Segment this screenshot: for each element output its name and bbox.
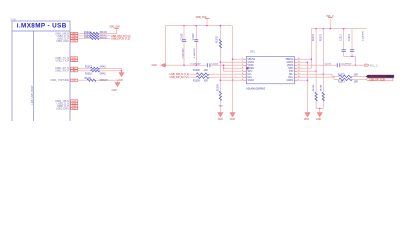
svg-text:VDD_5V0: VDD_5V0 <box>109 26 120 29</box>
junction join <box>319 108 320 109</box>
wire GND1 row <box>220 61 243 63</box>
junction pin row <box>315 71 316 72</box>
svg-text:SPD: SPD <box>288 68 293 70</box>
junction gnd2 <box>307 62 308 63</box>
svg-text:R1005: R1005 <box>217 36 219 43</box>
svg-text:7: 7 <box>242 76 243 78</box>
wire VBUS row <box>78 32 90 34</box>
junction rail r1075 <box>323 28 324 29</box>
wire bus left drop <box>164 26 166 66</box>
svg-text:GND: GND <box>218 118 224 121</box>
resistor R1009 <box>193 76 209 83</box>
svg-text:USB1_RX_P: USB1_RX_P <box>55 70 69 73</box>
wire RX_P row <box>78 70 91 72</box>
svg-text:R1009: R1009 <box>193 80 200 82</box>
svg-text:VDD1: VDD1 <box>248 65 255 67</box>
junction RX <box>121 70 122 71</box>
resistor R1075 vertical <box>319 29 324 109</box>
wire DD- row <box>297 74 339 76</box>
svg-text:PIN: PIN <box>289 71 293 73</box>
svg-text:i.MX_USB_PORT: i.MX_USB_PORT <box>31 85 34 104</box>
pin USB1_D_P <box>57 37 78 40</box>
svg-text:5: 5 <box>242 70 243 72</box>
resistor R1005 vertical <box>217 26 222 113</box>
pin stubs right U71 <box>294 59 297 80</box>
svg-text:USB1_DMU: USB1_DMU <box>56 40 69 43</box>
wire VBUS to VDD_5V0 <box>99 29 117 34</box>
pin stubs left U71 <box>244 59 247 80</box>
global label 5VL_2 <box>365 63 378 67</box>
block i.MX8MP outer box <box>12 21 70 122</box>
wire cap bottoms <box>344 56 356 65</box>
wire rail left drop to VBUS2 <box>297 29 311 60</box>
junction gnd1 <box>220 62 221 63</box>
svg-text:C1213: C1213 <box>340 34 342 41</box>
svg-text:GND: GND <box>304 118 310 121</box>
junction bus c1008 <box>183 25 184 26</box>
capacitor C1214 <box>349 29 354 57</box>
svg-text:DD-: DD- <box>289 74 293 76</box>
wire GND1b row <box>220 79 243 81</box>
wire bus right drop to VBUS1 <box>232 26 234 113</box>
ground TXRTUNE <box>112 83 121 93</box>
wire PDEN row <box>224 67 244 69</box>
ground R1005 <box>218 113 224 122</box>
wire join to gnd <box>319 109 321 113</box>
svg-text:VDD2: VDD2 <box>287 65 294 67</box>
capacitor C1008 <box>181 26 186 66</box>
wire gnd2 vertical <box>307 62 309 112</box>
svg-text:1: 1 <box>242 58 243 60</box>
svg-text:USB_DP_N (7,2): USB_DP_N (7,2) <box>170 76 189 79</box>
svg-text:C1002: C1002 <box>193 33 195 40</box>
svg-text:5VL_2: 5VL_2 <box>370 63 378 67</box>
svg-text:R1073: R1073 <box>338 82 345 84</box>
svg-text:4K7AC: 4K7AC <box>312 84 315 91</box>
ground left arrow <box>152 63 166 67</box>
svg-text:A9: A9 <box>73 70 75 73</box>
net label USB_DM_CON <box>366 75 394 79</box>
resistor R1024 <box>84 32 107 34</box>
svg-text:8: 8 <box>242 79 243 81</box>
capacitor C1002 <box>193 26 198 66</box>
svg-text:6: 6 <box>242 73 243 75</box>
svg-text:A10: A10 <box>72 59 75 62</box>
svg-text:GND: GND <box>316 118 322 121</box>
wire VDD2 row <box>297 64 337 66</box>
resistor R1017 <box>85 65 106 69</box>
wire TXRTUNE row <box>78 79 87 81</box>
resistor R1021 <box>85 78 109 82</box>
svg-text:DD+: DD+ <box>288 77 293 79</box>
wire D_N row <box>78 35 90 37</box>
svg-text:F12: F12 <box>72 80 75 82</box>
svg-text:VBUS1: VBUS1 <box>248 59 256 61</box>
svg-text:0.1uF/16V: 0.1uF/16V <box>362 30 364 41</box>
svg-text:R1075: R1075 <box>320 34 322 41</box>
wire D_P stub <box>99 37 111 39</box>
resistor R1025 <box>84 35 107 38</box>
junction rail c1213 <box>343 28 344 29</box>
wire UD+ row <box>190 76 197 78</box>
svg-text:E12: E12 <box>72 108 75 110</box>
junction bus r1005 <box>220 25 221 26</box>
svg-text:R1018: R1018 <box>85 74 92 76</box>
pin USB1_RX_P <box>55 70 78 73</box>
wire D_P row <box>78 37 90 39</box>
wire PIN row <box>297 70 316 72</box>
pin USB1_D_N <box>57 35 78 38</box>
wire TXRTUNE to gnd <box>97 80 118 82</box>
svg-text:B11: B11 <box>72 41 75 43</box>
svg-text:2: 2 <box>242 61 243 63</box>
pin 4 PDEN square <box>247 67 249 69</box>
svg-text:0RAC: 0RAC <box>100 73 106 76</box>
svg-text:USB2_DMU: USB2_DMU <box>56 107 69 110</box>
svg-text:GND: GND <box>112 89 118 92</box>
svg-text:VBUS2: VBUS2 <box>285 59 293 61</box>
pin numbers left U71 <box>242 58 243 81</box>
svg-text:GND2: GND2 <box>287 62 294 64</box>
svg-text:GND: GND <box>230 118 236 121</box>
wire VDD1 row with cap <box>165 64 207 66</box>
svg-text:10R: 10R <box>204 70 209 72</box>
svg-text:10R: 10R <box>204 80 209 82</box>
pin USB2_D_N <box>57 102 78 105</box>
svg-text:GND: GND <box>118 79 124 82</box>
wire 3v3 bus <box>165 25 231 27</box>
svg-text:10R: 10R <box>354 82 359 84</box>
wire GND2b row <box>297 79 308 81</box>
junction spu <box>223 65 224 66</box>
power 5VL_2 <box>327 15 335 29</box>
svg-text:C1003: C1003 <box>211 64 218 66</box>
wire GND2 row <box>297 61 308 63</box>
junction dd- <box>323 74 324 75</box>
svg-text:USB_DP_CON: USB_DP_CON <box>369 79 385 82</box>
wire DD- to label <box>352 75 366 77</box>
svg-text:R1008: R1008 <box>193 70 200 72</box>
resistor R1026 <box>84 37 107 40</box>
wire RX_N to gnd <box>100 68 122 72</box>
capacitor C1003 <box>191 63 219 67</box>
svg-text:C1008: C1008 <box>181 33 183 40</box>
junction cap2 <box>351 56 352 57</box>
wire DD+ row <box>297 77 339 79</box>
wire vbus2 to spd <box>297 59 311 68</box>
svg-text:SPU: SPU <box>248 71 253 73</box>
wire join R1074 R1075 <box>316 108 323 110</box>
pin USB1_TX_P <box>55 59 77 62</box>
pin names right U71 <box>285 59 293 82</box>
pin USB1_TXRTUNE <box>50 79 78 82</box>
junction bus c1002 <box>196 25 197 26</box>
pin USB1_RX_N <box>55 67 78 70</box>
pin USB1_DMU <box>56 40 78 43</box>
svg-text:R1006: R1006 <box>218 84 220 91</box>
svg-text:C1071: C1071 <box>325 64 332 66</box>
svg-text:PDEN: PDEN <box>248 68 255 70</box>
svg-text:51K: 51K <box>219 105 223 107</box>
svg-text:0.1uF/16V: 0.1uF/16V <box>194 48 196 59</box>
wire 5v rail <box>311 28 366 30</box>
junction gnd2b <box>307 80 308 81</box>
resistor R1008 <box>193 70 209 76</box>
svg-text:3: 3 <box>242 64 243 66</box>
wire SPU row <box>224 65 244 71</box>
wire RX_P to junction <box>100 70 122 72</box>
power VDD_3V3 <box>196 16 210 26</box>
svg-text:4K7AC: 4K7AC <box>319 84 322 91</box>
ground gnd2 <box>304 113 311 122</box>
svg-text:GND1: GND1 <box>248 80 255 82</box>
pin USB2_DMU <box>56 107 78 110</box>
svg-text:USB_DP_N (7,2): USB_DP_N (7,2) <box>111 37 130 40</box>
svg-text:UD+: UD+ <box>248 77 253 79</box>
svg-text:GND: GND <box>152 64 158 67</box>
wire UD- row <box>190 73 197 75</box>
junction vbus2 <box>311 59 312 60</box>
svg-text:USB1_TXRTUNE: USB1_TXRTUNE <box>50 79 69 82</box>
svg-text:GND1: GND1 <box>248 62 255 64</box>
resistor R1018 <box>85 70 106 76</box>
svg-text:4: 4 <box>242 67 243 69</box>
pin USB1_VBUS <box>55 32 78 35</box>
junction vdd1 c1002 <box>196 65 197 66</box>
pin USB1_TX_N <box>55 57 77 60</box>
pin USB2_VBUS <box>55 100 78 103</box>
pin names left U71 <box>248 59 256 82</box>
ground right pair <box>316 113 323 122</box>
junction rail r1074 <box>315 28 316 29</box>
resistor R1006 vertical on gnd chain <box>218 84 224 108</box>
wire RX_N row <box>78 67 91 69</box>
net label USB_DP_CON <box>366 78 393 82</box>
resistor R1072 <box>338 74 358 77</box>
wire DD+ to label <box>352 78 366 80</box>
pin USB2_D_P <box>57 105 78 108</box>
svg-text:USB1_TX_P: USB1_TX_P <box>55 59 69 62</box>
wire D_N stub <box>99 35 111 37</box>
resistor R1073 <box>338 78 358 83</box>
junction vdd2 row <box>355 65 356 66</box>
resistor R1074 vertical <box>312 29 317 109</box>
svg-text:0RAC: 0RAC <box>100 65 106 68</box>
junction bus vdd <box>206 25 207 26</box>
op U71 ADuM4160 <box>246 50 294 90</box>
pin numbers right U71 <box>298 58 300 81</box>
ground RX <box>118 73 125 83</box>
svg-text:C1214: C1214 <box>349 34 351 41</box>
svg-text:ADuM4160BRWZ: ADuM4160BRWZ <box>246 88 265 91</box>
junction gnd1b <box>220 80 221 81</box>
junction rail power <box>330 28 331 29</box>
capacitor C1213 <box>340 29 345 57</box>
svg-text:GND2: GND2 <box>287 80 294 82</box>
junction vdd1 c1008 <box>183 65 184 66</box>
capacitor C1071 <box>325 63 352 67</box>
power VDD_5V0 <box>109 26 120 29</box>
svg-text:UD-: UD- <box>248 74 252 76</box>
svg-text:i.MX8MP - USB: i.MX8MP - USB <box>17 23 67 30</box>
svg-text:R1074: R1074 <box>313 34 315 41</box>
svg-text:U71: U71 <box>250 50 255 53</box>
svg-text:0.1uF/16V: 0.1uF/16V <box>183 48 185 59</box>
